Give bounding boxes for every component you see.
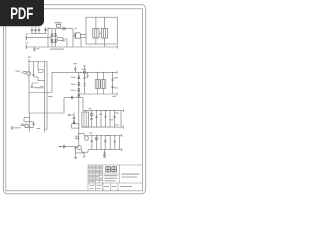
capacitor C19 xyxy=(73,118,75,119)
fuse F1 circle xyxy=(63,27,66,30)
secondary winding A xyxy=(95,72,100,94)
terminal J2 pin xyxy=(25,45,27,49)
row2 jog wire xyxy=(78,134,84,136)
node dot xyxy=(100,33,101,34)
capacitor C7 bars xyxy=(21,124,25,126)
wire loop left xyxy=(51,72,53,92)
node end tick xyxy=(116,93,118,96)
title block kanji glyphs xyxy=(106,167,117,172)
resistor R2 box xyxy=(57,38,63,41)
svg-text:PDF: PDF xyxy=(10,4,33,23)
wire stub xyxy=(121,109,123,112)
wire xyxy=(34,77,45,81)
capacitor C17 xyxy=(114,136,116,150)
wire xyxy=(27,38,51,41)
capacitor C9 xyxy=(111,72,113,94)
transformer T1 winding rails xyxy=(45,62,48,130)
wire xyxy=(51,29,53,47)
relay box K1 xyxy=(86,17,117,44)
card border xyxy=(3,5,145,194)
wire xyxy=(100,136,102,150)
wire long horizontal 2 xyxy=(29,112,64,114)
node dot xyxy=(60,146,61,147)
wire xyxy=(100,111,102,128)
diode D1b xyxy=(54,34,57,37)
capacitor C6 xyxy=(32,62,34,78)
wire stub xyxy=(120,148,122,151)
wire xyxy=(76,153,86,157)
resistor R1 box xyxy=(57,24,61,27)
wire xyxy=(55,29,57,47)
node triangle xyxy=(105,110,107,112)
capacitor C1 xyxy=(31,27,33,34)
wire xyxy=(25,122,34,128)
wire xyxy=(96,38,105,47)
row2 bottom bus xyxy=(88,149,120,151)
ground xyxy=(74,157,77,158)
capacitor C18 xyxy=(74,147,76,158)
wire xyxy=(12,127,20,129)
wire xyxy=(82,150,88,153)
title block small texts xyxy=(89,166,140,189)
component mark xyxy=(41,86,43,88)
wire xyxy=(109,111,111,128)
diode chain D6 xyxy=(78,94,80,96)
capacitor C20 under bus xyxy=(33,47,35,52)
capacitor C3 xyxy=(38,27,40,34)
node dot xyxy=(80,72,81,73)
capacitor C14 xyxy=(91,136,93,150)
snubber wire xyxy=(58,146,77,148)
relay coil winding 2 xyxy=(101,29,107,38)
LED circle + capacitor C10 xyxy=(90,111,92,128)
PDF badge xyxy=(0,0,44,26)
diode D7 hanging xyxy=(103,150,106,158)
inductor blob xyxy=(85,136,88,140)
wire riser xyxy=(82,98,84,111)
LED circle row2 xyxy=(96,136,98,150)
wire xyxy=(96,17,105,28)
row2 right edge xyxy=(119,136,121,150)
capacitor C4 electrolytic xyxy=(44,27,47,34)
component box B2 xyxy=(72,124,79,128)
label texts as gray marks xyxy=(16,22,119,133)
wire secondary top bus xyxy=(52,71,117,73)
row1 right edge xyxy=(120,111,122,128)
diode chain D4 xyxy=(78,83,80,86)
diode chain D3 xyxy=(78,76,80,79)
title block xyxy=(88,165,142,191)
small cluster cap xyxy=(31,83,38,88)
terminal stub xyxy=(28,59,30,61)
connector P1 plug xyxy=(74,33,76,39)
wire xyxy=(45,130,48,133)
diode D2 xyxy=(51,40,54,43)
wire xyxy=(84,111,86,112)
capacitor stub C21 xyxy=(87,72,89,78)
regulator U2 box xyxy=(82,112,89,127)
secondary winding B xyxy=(101,72,106,94)
series capacitor bars xyxy=(71,96,72,99)
relay coil winding 1 xyxy=(93,29,99,38)
row1 bottom bus xyxy=(82,126,121,128)
wire top bus xyxy=(48,28,73,30)
wire stub xyxy=(121,126,123,129)
capacitor C11 xyxy=(95,111,97,128)
capacitor C5 side bars xyxy=(23,71,27,73)
wire xyxy=(73,113,75,124)
wire plug prongs xyxy=(80,35,86,38)
terminal stub xyxy=(11,126,13,130)
capacitor C13 xyxy=(113,111,115,128)
row1 top bus xyxy=(83,110,121,112)
node end tick xyxy=(116,46,118,49)
transistor Q2 circle xyxy=(76,136,79,139)
transistor Q1 circle xyxy=(78,146,82,150)
lamp NE1 circle xyxy=(27,72,31,76)
capacitor C2 xyxy=(34,27,36,34)
wire plug down xyxy=(80,38,82,47)
wire main bottom bus xyxy=(27,46,118,48)
wire bus under badge xyxy=(31,33,47,35)
row2 top bus xyxy=(84,135,119,137)
wire xyxy=(64,97,83,99)
capacitor C12 xyxy=(104,111,106,128)
wire xyxy=(63,98,65,113)
wire right rail xyxy=(72,29,74,47)
series capacitor bars xyxy=(63,145,64,148)
diode chain D5 xyxy=(78,89,80,92)
wire xyxy=(21,71,23,73)
small cap above rail xyxy=(74,66,76,72)
wire stub xyxy=(120,134,122,137)
wire xyxy=(109,136,111,150)
wire xyxy=(73,34,76,36)
capacitor C16 xyxy=(104,136,106,150)
crystal X1 box xyxy=(38,69,43,72)
diode D8 xyxy=(73,121,75,123)
terminal J1 pin xyxy=(25,36,27,40)
stub above fuse xyxy=(84,66,86,71)
wire left rail mid xyxy=(28,62,30,114)
wire mid bus xyxy=(29,61,47,63)
diode D2b xyxy=(54,40,57,43)
arrow net label xyxy=(68,114,74,116)
fuse F2 circle xyxy=(83,71,86,74)
wire xyxy=(81,149,82,152)
node triangle xyxy=(107,135,109,136)
junction dots xyxy=(84,72,115,136)
capacitor chain below fuse xyxy=(83,74,85,94)
diode D1 xyxy=(51,34,54,37)
wire left rail xyxy=(47,27,49,47)
wire long horizontal xyxy=(29,92,53,94)
node end tick xyxy=(116,71,118,74)
wire xyxy=(24,113,30,132)
photocoupler circle xyxy=(25,124,28,127)
wire xyxy=(37,62,39,70)
wire secondary bottom bus xyxy=(79,93,117,95)
wire xyxy=(63,39,67,47)
wire secondary left rail xyxy=(78,72,80,146)
capacitor C8 xyxy=(32,122,34,128)
